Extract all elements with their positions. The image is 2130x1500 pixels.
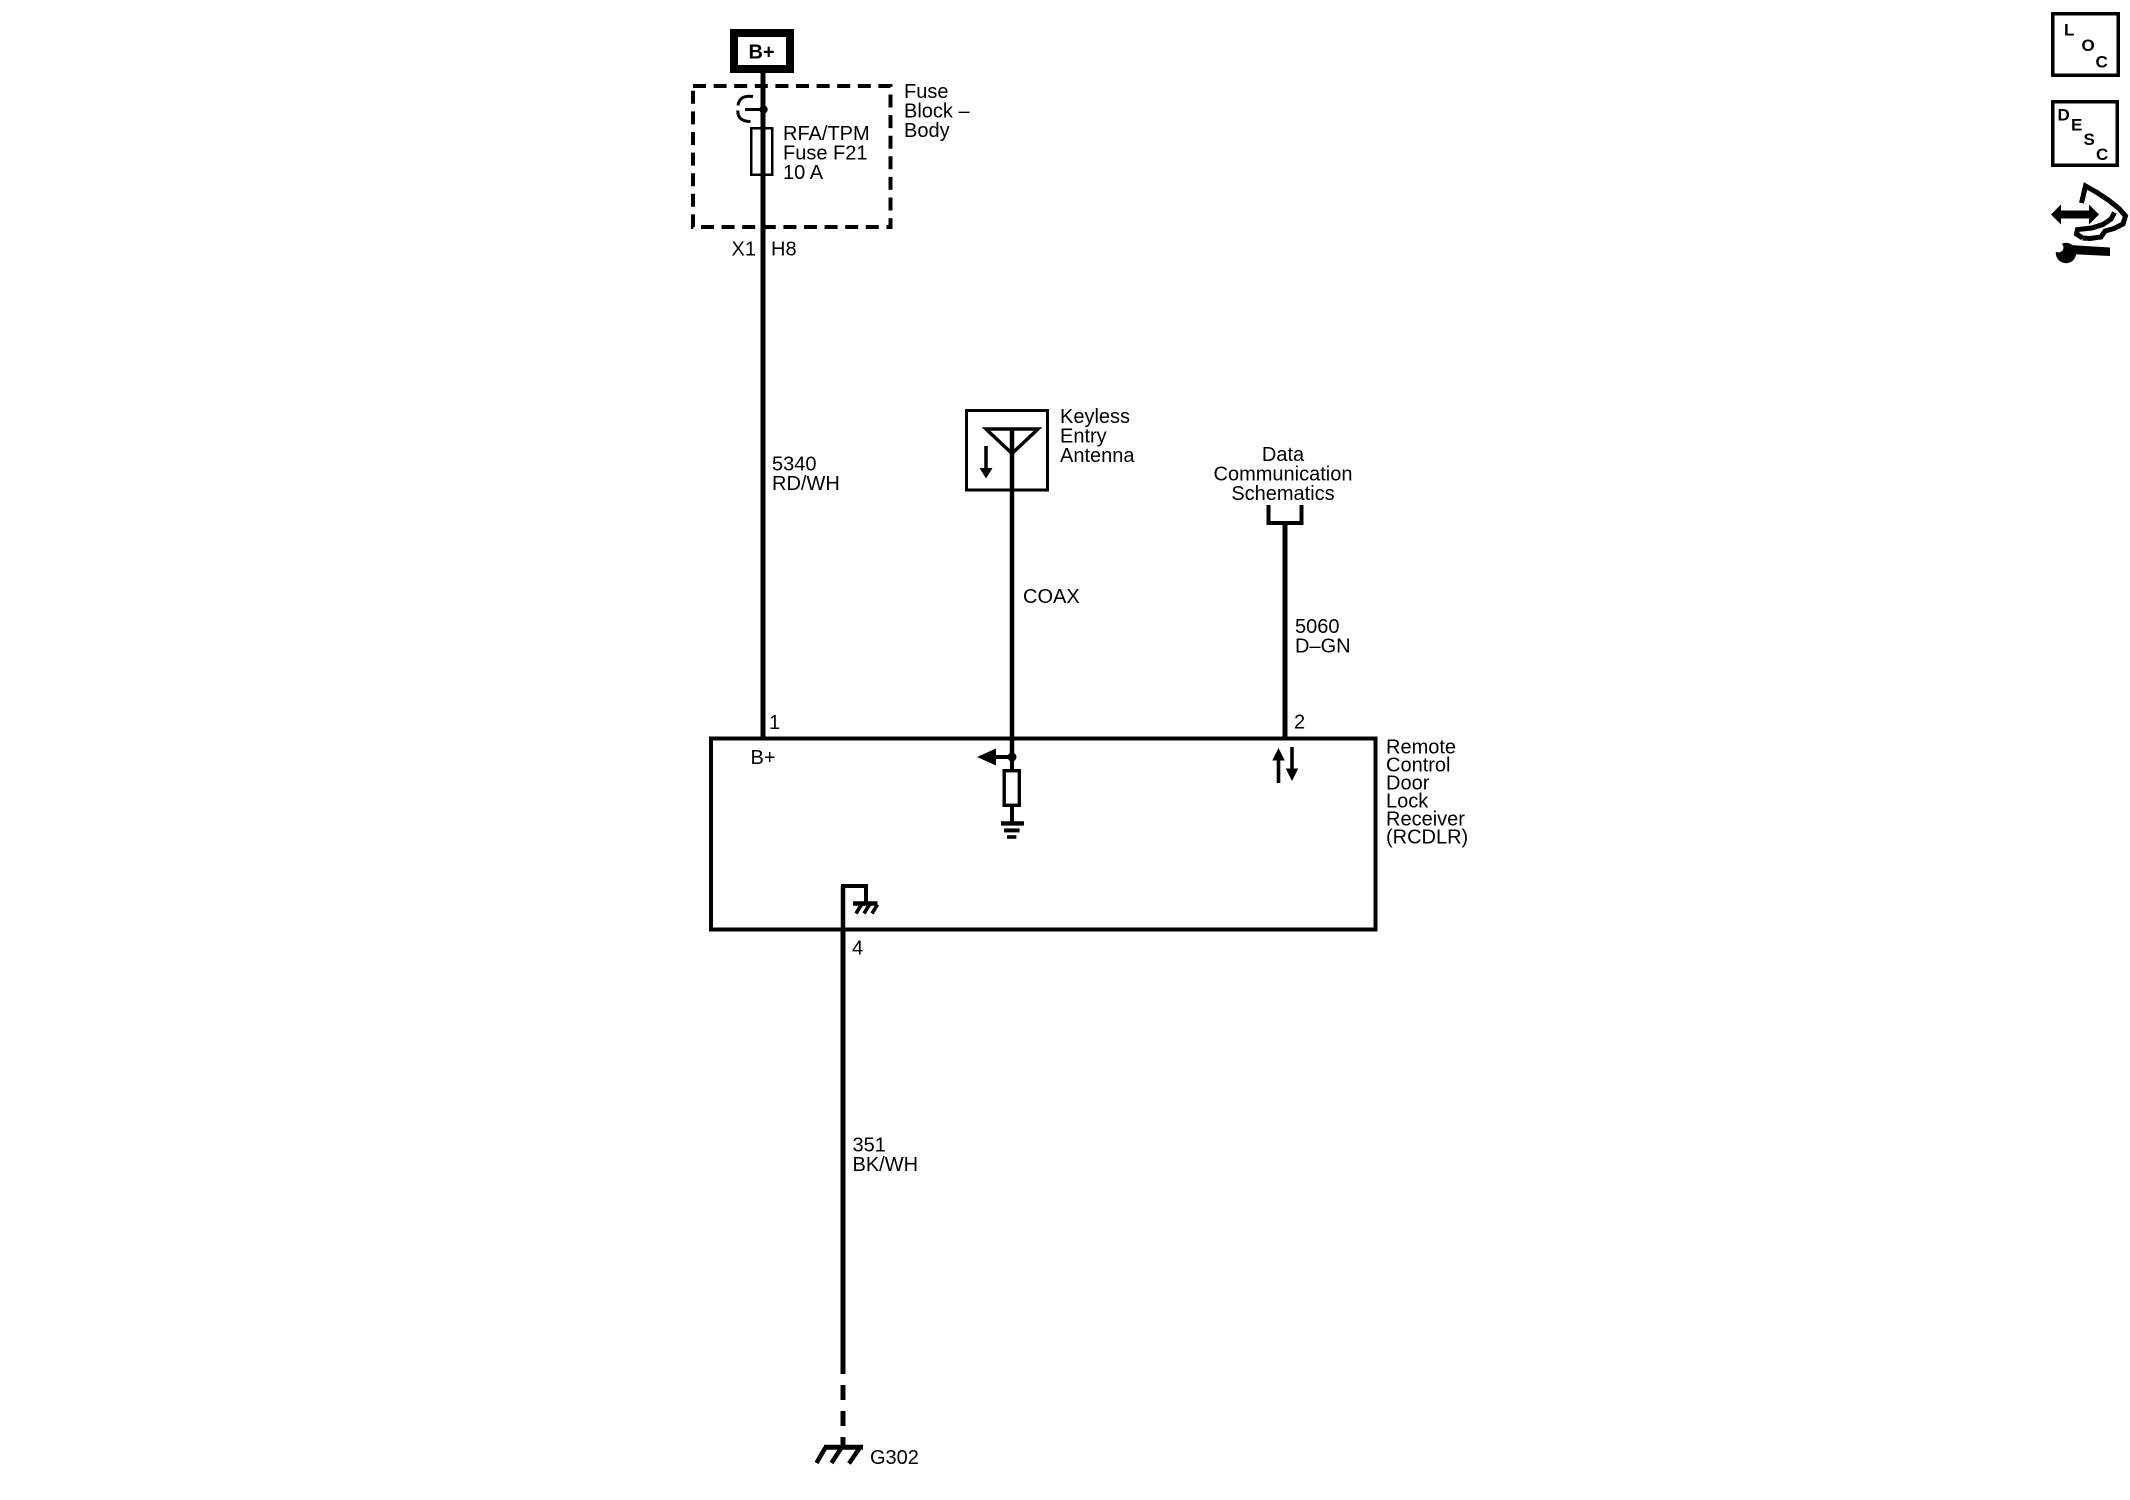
svg-text:G302: G302	[870, 1447, 919, 1469]
svg-text:Body: Body	[904, 120, 950, 142]
svg-text:(RCDLR): (RCDLR)	[1386, 827, 1468, 849]
svg-text:E: E	[2071, 116, 2082, 135]
svg-text:C: C	[2096, 145, 2108, 164]
svg-text:COAX: COAX	[1023, 586, 1080, 608]
svg-text:H8: H8	[771, 239, 797, 261]
svg-text:D: D	[2058, 106, 2070, 125]
svg-text:4: 4	[852, 938, 863, 960]
svg-text:Antenna: Antenna	[1060, 445, 1135, 467]
svg-text:C: C	[2096, 53, 2108, 72]
svg-text:2: 2	[1294, 712, 1305, 734]
svg-text:S: S	[2084, 130, 2095, 149]
svg-text:B+: B+	[748, 42, 774, 64]
svg-text:B+: B+	[751, 747, 776, 769]
svg-text:D–GN: D–GN	[1295, 636, 1351, 658]
svg-text:X1: X1	[732, 239, 756, 261]
svg-text:O: O	[2082, 36, 2095, 55]
svg-text:BK/WH: BK/WH	[853, 1154, 919, 1176]
svg-text:RD/WH: RD/WH	[772, 473, 840, 495]
svg-text:10 A: 10 A	[783, 162, 824, 184]
svg-text:1: 1	[769, 712, 780, 734]
svg-text:L: L	[2064, 21, 2074, 40]
svg-text:Schematics: Schematics	[1231, 483, 1334, 505]
